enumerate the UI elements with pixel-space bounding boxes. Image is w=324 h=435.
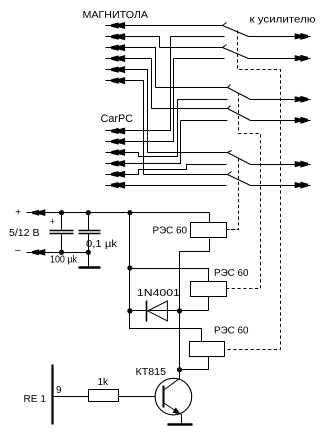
diode VD1 triangle — [148, 301, 168, 321]
capacitor C2 plates — [79, 231, 101, 234]
wire CarPC 6 to S6 lower contact — [125, 185, 227, 187]
svg-text:1k: 1k — [98, 377, 110, 388]
wire магнитола 1 to S1 upper contact — [125, 25, 223, 27]
arrow CarPC line 3 — [106, 149, 126, 156]
junction dot C1 top — [59, 210, 64, 215]
wire emitter to ground — [181, 415, 183, 425]
transistor Q1 emitter arrowhead — [172, 407, 180, 414]
wire магнитола 2 to S2 upper contact — [125, 37, 223, 48]
connector RE1 bar — [51, 365, 53, 425]
ground emitter — [168, 423, 193, 425]
arrow CarPC line 4 — [106, 160, 126, 167]
arrow CarPC line 2 — [106, 138, 126, 145]
junction dot bus A tap — [127, 210, 132, 215]
junction dot collector node — [177, 367, 182, 372]
relay K1 coil — [191, 223, 227, 238]
junction dot diode cathode — [127, 308, 132, 313]
transistor Q1 base bar — [163, 386, 165, 408]
capacitor C1 100uk leads — [61, 213, 63, 253]
arrow output 4 к усилителю — [295, 117, 311, 124]
switch S4 blade (relay contact) — [228, 106, 251, 121]
svg-text:100 µk: 100 µk — [50, 255, 78, 266]
wire S5 common output to amplifier — [251, 164, 297, 166]
wire bus A branch to relay K2 top — [130, 269, 209, 282]
arrow магнитола line 6 — [106, 77, 126, 84]
arrow output 3 к усилителю — [295, 96, 311, 103]
junction dot C2 top — [86, 210, 91, 215]
wire bus B relay K1 bottom to collector — [180, 239, 210, 370]
wire -rail — [45, 252, 89, 254]
arrow CarPC line 1 — [106, 128, 126, 135]
arrow output 2 к усилителю — [295, 55, 311, 62]
svg-text:–: – — [15, 245, 21, 256]
svg-text:РЭС 60: РЭС 60 — [214, 325, 249, 336]
wire CarPC 3 to S3 lower contact — [125, 100, 228, 157]
svg-text:0,1 µk: 0,1 µk — [86, 239, 118, 250]
svg-text:МАГНИТОЛА: МАГНИТОЛА — [83, 10, 149, 21]
transistor Q1 collector — [165, 370, 180, 390]
junction dot C1 bottom — [59, 250, 64, 255]
arrow магнитола line 3 — [106, 44, 126, 51]
wire bus A (+) down to relay K3 feed — [130, 213, 202, 342]
wire resistor to base — [119, 396, 156, 398]
arrow магнитола line 1 — [106, 22, 126, 29]
svg-text:CarPC: CarPC — [101, 113, 134, 125]
resistor R1 1k — [89, 390, 119, 402]
svg-text:5/12 В: 5/12 В — [9, 228, 40, 239]
arrow магнитола line 4 — [106, 55, 126, 62]
ground power rail — [79, 253, 101, 268]
capacitor C1 plates — [50, 231, 74, 234]
wire RE1 pin9 to resistor — [54, 396, 89, 398]
arrow магнитола line 5 — [106, 66, 126, 73]
switch S6 blade (relay contact) — [228, 172, 251, 186]
arrow + supply input — [27, 209, 46, 216]
wire S6 common output to amplifier — [251, 185, 297, 187]
wire +rail — [45, 212, 210, 214]
junction dot bus A / K2 feed — [127, 265, 132, 270]
wire магнитола 5 to S5 upper contact — [125, 70, 228, 153]
wire S4 common output to amplifier — [251, 120, 297, 122]
wire CarPC 4 to S4 lower contact — [125, 121, 228, 164]
switch S2 blade (relay contact) — [223, 45, 249, 59]
wire diode row — [130, 297, 209, 311]
transistor Q1 emitter — [165, 404, 182, 415]
wire магнитола 4 to S4 upper contact — [125, 59, 228, 109]
dashed linkage switches S3-S4 to relay K2 — [227, 93, 261, 289]
svg-text:+: + — [15, 207, 21, 218]
arrow - supply input — [27, 249, 46, 256]
wire S3 common output to amplifier — [251, 99, 297, 101]
svg-text:RE 1: RE 1 — [24, 394, 47, 405]
svg-text:РЭС 60: РЭС 60 — [153, 225, 188, 236]
dashed link relay K1 to armature — [227, 229, 239, 231]
svg-text:9: 9 — [56, 385, 62, 396]
arrow магнитола line 2 — [106, 33, 126, 40]
wire магнитола 3 to S3 upper contact — [125, 48, 228, 88]
svg-text:к усилителю: к усилителю — [250, 15, 317, 26]
relay K3 coil — [190, 342, 225, 357]
wire S1 common output to amplifier — [249, 36, 297, 38]
svg-text:1N4001: 1N4001 — [137, 288, 181, 299]
wire CarPC 2 to S2 lower contact — [125, 59, 225, 142]
wire collector node to relay K3 bottom — [180, 357, 209, 370]
diode VD1 cathode bar — [146, 301, 148, 322]
wire CarPC 5 to S5 lower contact — [125, 165, 227, 175]
capacitor C2 0,1uk leads — [88, 213, 90, 253]
junction dot diode anode / bus B — [177, 308, 182, 313]
switch S5 blade (relay contact) — [228, 151, 251, 165]
arrow output 1 к усилителю — [295, 33, 311, 40]
svg-text:КТ815: КТ815 — [136, 367, 167, 378]
dashed linkage switches S1-S2 to relay K3 — [225, 31, 281, 350]
arrow output 5 к усилителю — [295, 161, 311, 168]
junction dot C2 bottom / ground — [86, 250, 91, 255]
relay K2 coil — [191, 282, 227, 297]
transistor Q1 body circle — [155, 378, 192, 415]
arrow CarPC line 6 — [106, 182, 126, 189]
dashed linkage switches S5-S6 to relay K1 — [227, 159, 239, 230]
wire магнитола 6 to S6 upper contact — [125, 81, 228, 175]
wire CarPC 1 to S1 lower contact — [125, 37, 225, 131]
arrow CarPC line 5 — [106, 171, 126, 178]
svg-text:+: + — [50, 216, 55, 226]
switch S1 blade (relay contact) — [223, 23, 249, 37]
switch S3 blade (relay contact) — [228, 85, 251, 100]
arrow output 6 к усилителю — [295, 182, 311, 189]
wire S2 common output to amplifier — [249, 58, 297, 60]
svg-text:РЭС 60: РЭС 60 — [214, 268, 249, 279]
wire relay K1 top lead — [209, 213, 211, 223]
